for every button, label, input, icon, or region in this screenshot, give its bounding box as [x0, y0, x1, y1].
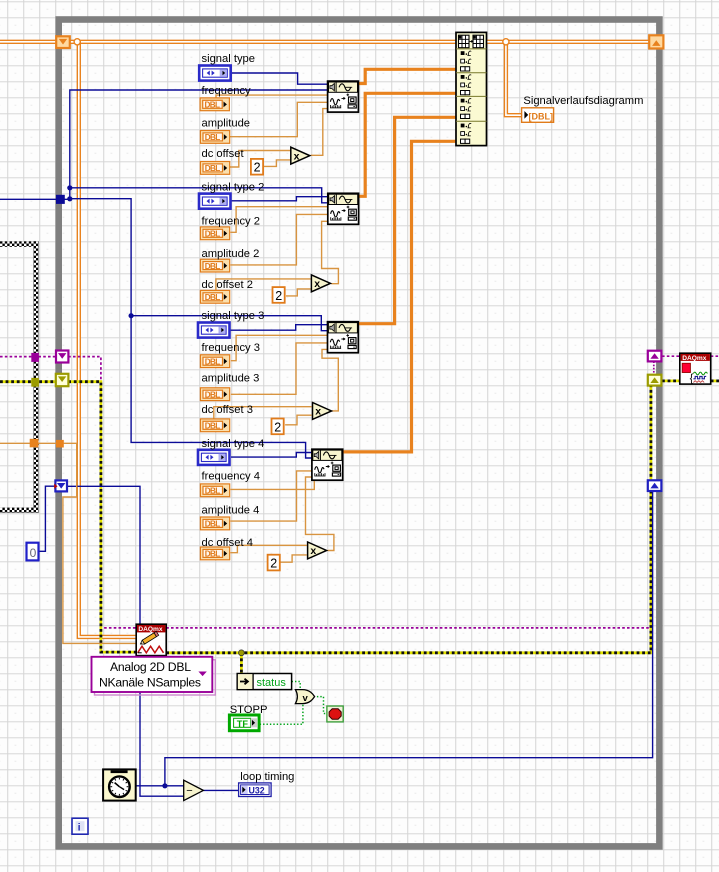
svg-text:NKanäle NSamples: NKanäle NSamples	[99, 676, 201, 690]
svg-text:v: v	[303, 693, 309, 704]
svg-text:frequency 2: frequency 2	[202, 216, 260, 228]
svg-text:amplitude 4: amplitude 4	[202, 505, 260, 517]
svg-text:STOPP: STOPP	[230, 704, 268, 716]
svg-text:0: 0	[30, 546, 37, 560]
svg-text:Analog 2D DBL: Analog 2D DBL	[110, 660, 191, 674]
svg-text:U32: U32	[249, 786, 265, 796]
svg-text:TF: TF	[237, 719, 249, 729]
svg-text:frequency: frequency	[202, 85, 252, 97]
svg-text:dc offset 2: dc offset 2	[202, 279, 253, 291]
svg-text:dc offset: dc offset	[202, 148, 245, 160]
svg-text:DAQmx: DAQmx	[682, 355, 707, 362]
svg-text:signal type: signal type	[202, 53, 256, 65]
svg-text:status: status	[257, 677, 287, 689]
svg-text:amplitude: amplitude	[202, 118, 251, 130]
svg-text:{: {	[690, 372, 694, 384]
svg-text:Signalverlaufsdiagramm: Signalverlaufsdiagramm	[523, 95, 643, 107]
svg-text:dc offset 3: dc offset 3	[202, 404, 253, 416]
svg-text:amplitude 2: amplitude 2	[202, 248, 260, 260]
svg-text:dc offset 4: dc offset 4	[202, 537, 253, 549]
svg-text:frequency 3: frequency 3	[202, 342, 260, 354]
svg-text:signal type 4: signal type 4	[202, 438, 265, 450]
svg-text:frequency 4: frequency 4	[202, 471, 260, 483]
svg-text:signal type 2: signal type 2	[202, 181, 265, 193]
svg-text:loop timing: loop timing	[240, 771, 294, 783]
svg-text:[DBL]: [DBL]	[529, 111, 554, 121]
svg-text:i: i	[78, 823, 81, 834]
svg-text:DAQmx: DAQmx	[138, 626, 163, 633]
svg-text:amplitude 3: amplitude 3	[202, 373, 260, 385]
svg-text:signal type 3: signal type 3	[202, 310, 265, 322]
svg-text:−: −	[186, 785, 192, 797]
